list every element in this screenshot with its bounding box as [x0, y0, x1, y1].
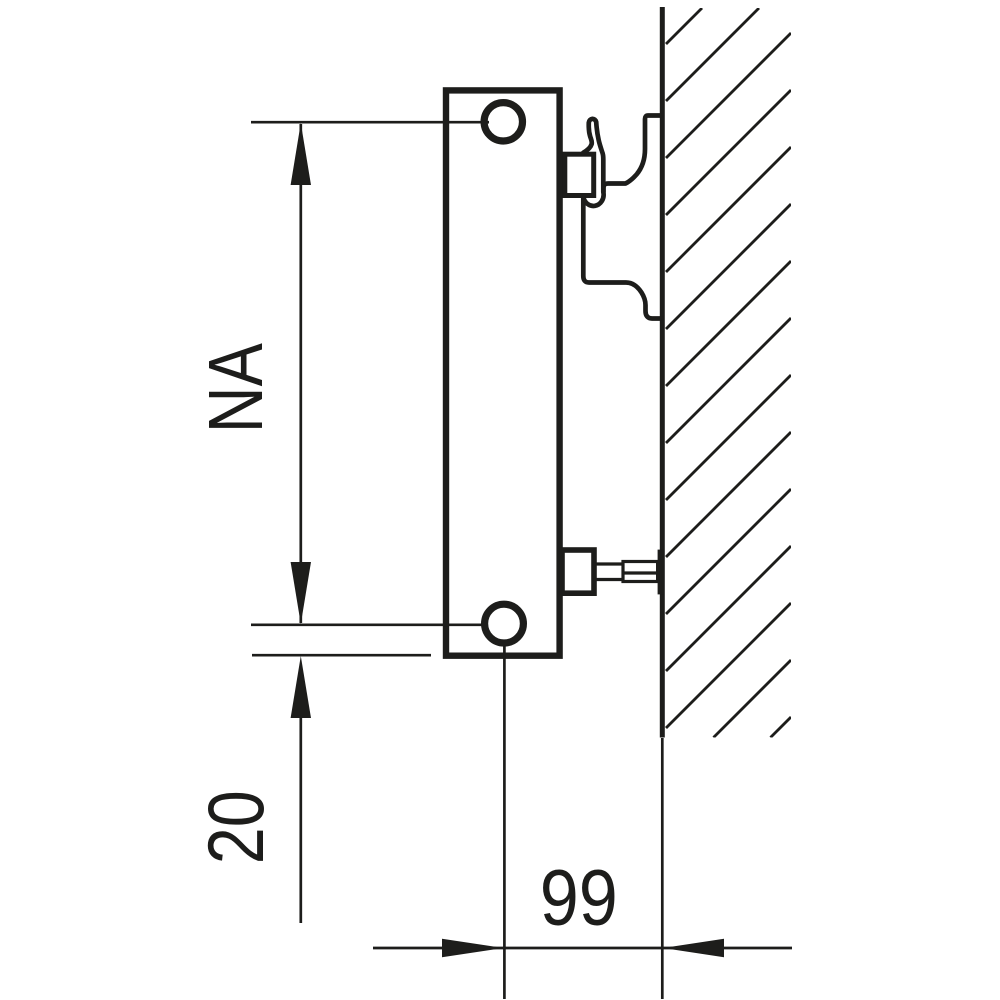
- svg-text:99: 99: [540, 853, 618, 942]
- svg-text:20: 20: [191, 790, 280, 864]
- svg-text:NA: NA: [193, 343, 279, 434]
